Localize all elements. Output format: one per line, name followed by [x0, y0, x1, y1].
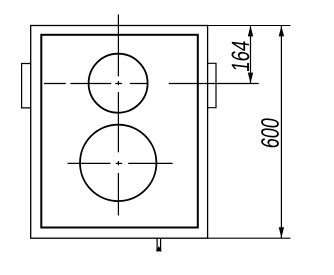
- top hole circle: [89, 54, 148, 113]
- bottom hole horizontal centerline: [68, 162, 173, 164]
- bottom pin: [156, 238, 162, 251]
- right tab: [208, 63, 216, 107]
- inner plate outline: [41, 35, 198, 228]
- dimension text 164: [232, 40, 250, 71]
- bottom extension line: [208, 237, 291, 239]
- top hole horizontal centerline: [44, 83, 147, 85]
- dimension text 600: [261, 118, 279, 149]
- vertical centerline: [117, 14, 119, 215]
- bottom hole circle: [80, 125, 156, 201]
- extension line for 164 (centerline extended): [169, 83, 259, 85]
- dimension line 164: [248, 26, 253, 84]
- dimension line 600: [279, 26, 284, 239]
- left tab: [22, 64, 31, 108]
- outer plate outline: [31, 26, 208, 239]
- top extension line: [208, 25, 291, 27]
